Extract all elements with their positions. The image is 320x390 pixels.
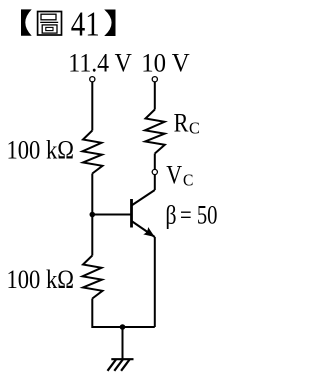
supply terminal 11.4 V — [90, 77, 95, 82]
svg-text:100 kΩ: 100 kΩ — [7, 136, 75, 165]
junction: base node — [90, 212, 96, 218]
ground — [108, 359, 134, 371]
wire: R1 bottom to R2 top (base rail) — [91, 174, 93, 256]
transistor Q1 (NPN) — [132, 190, 155, 237]
resistor R2 100 kOhm — [83, 256, 103, 299]
svg-text:β: β — [165, 200, 176, 229]
svg-text:10 V: 10 V — [141, 48, 190, 77]
svg-text:C: C — [189, 118, 200, 137]
svg-text:V: V — [166, 160, 182, 189]
figure title bracket 】 — [104, 10, 115, 37]
wire: ground stub — [122, 327, 124, 360]
wire: emitter down to bottom rail — [154, 237, 156, 327]
wire: VC node to collector — [154, 175, 156, 190]
svg-text:100 kΩ: 100 kΩ — [7, 265, 75, 294]
wire: bottom rail right segment — [123, 326, 155, 328]
resistor R1 100 kOhm — [83, 131, 103, 174]
resistor RC — [145, 110, 165, 154]
figure title bracket 【 — [21, 9, 32, 35]
junction: ground node — [120, 324, 126, 330]
svg-text:11.4 V: 11.4 V — [68, 48, 132, 77]
wire: 10 V terminal to RC top — [154, 82, 156, 110]
node VC (open terminal) — [152, 169, 157, 174]
svg-text:= 50: = 50 — [180, 200, 218, 229]
supply terminal 10 V — [152, 77, 157, 82]
svg-text:C: C — [183, 170, 193, 189]
wire: base node to transistor base — [92, 214, 130, 216]
svg-text:R: R — [174, 108, 189, 137]
svg-text:41: 41 — [71, 5, 100, 44]
wire: RC bottom to VC node — [154, 154, 156, 170]
wire: 11.4 V terminal to R1 top — [91, 82, 93, 131]
figure title character 圖 — [38, 12, 62, 36]
wire: R2 bottom to bottom rail — [92, 299, 122, 328]
